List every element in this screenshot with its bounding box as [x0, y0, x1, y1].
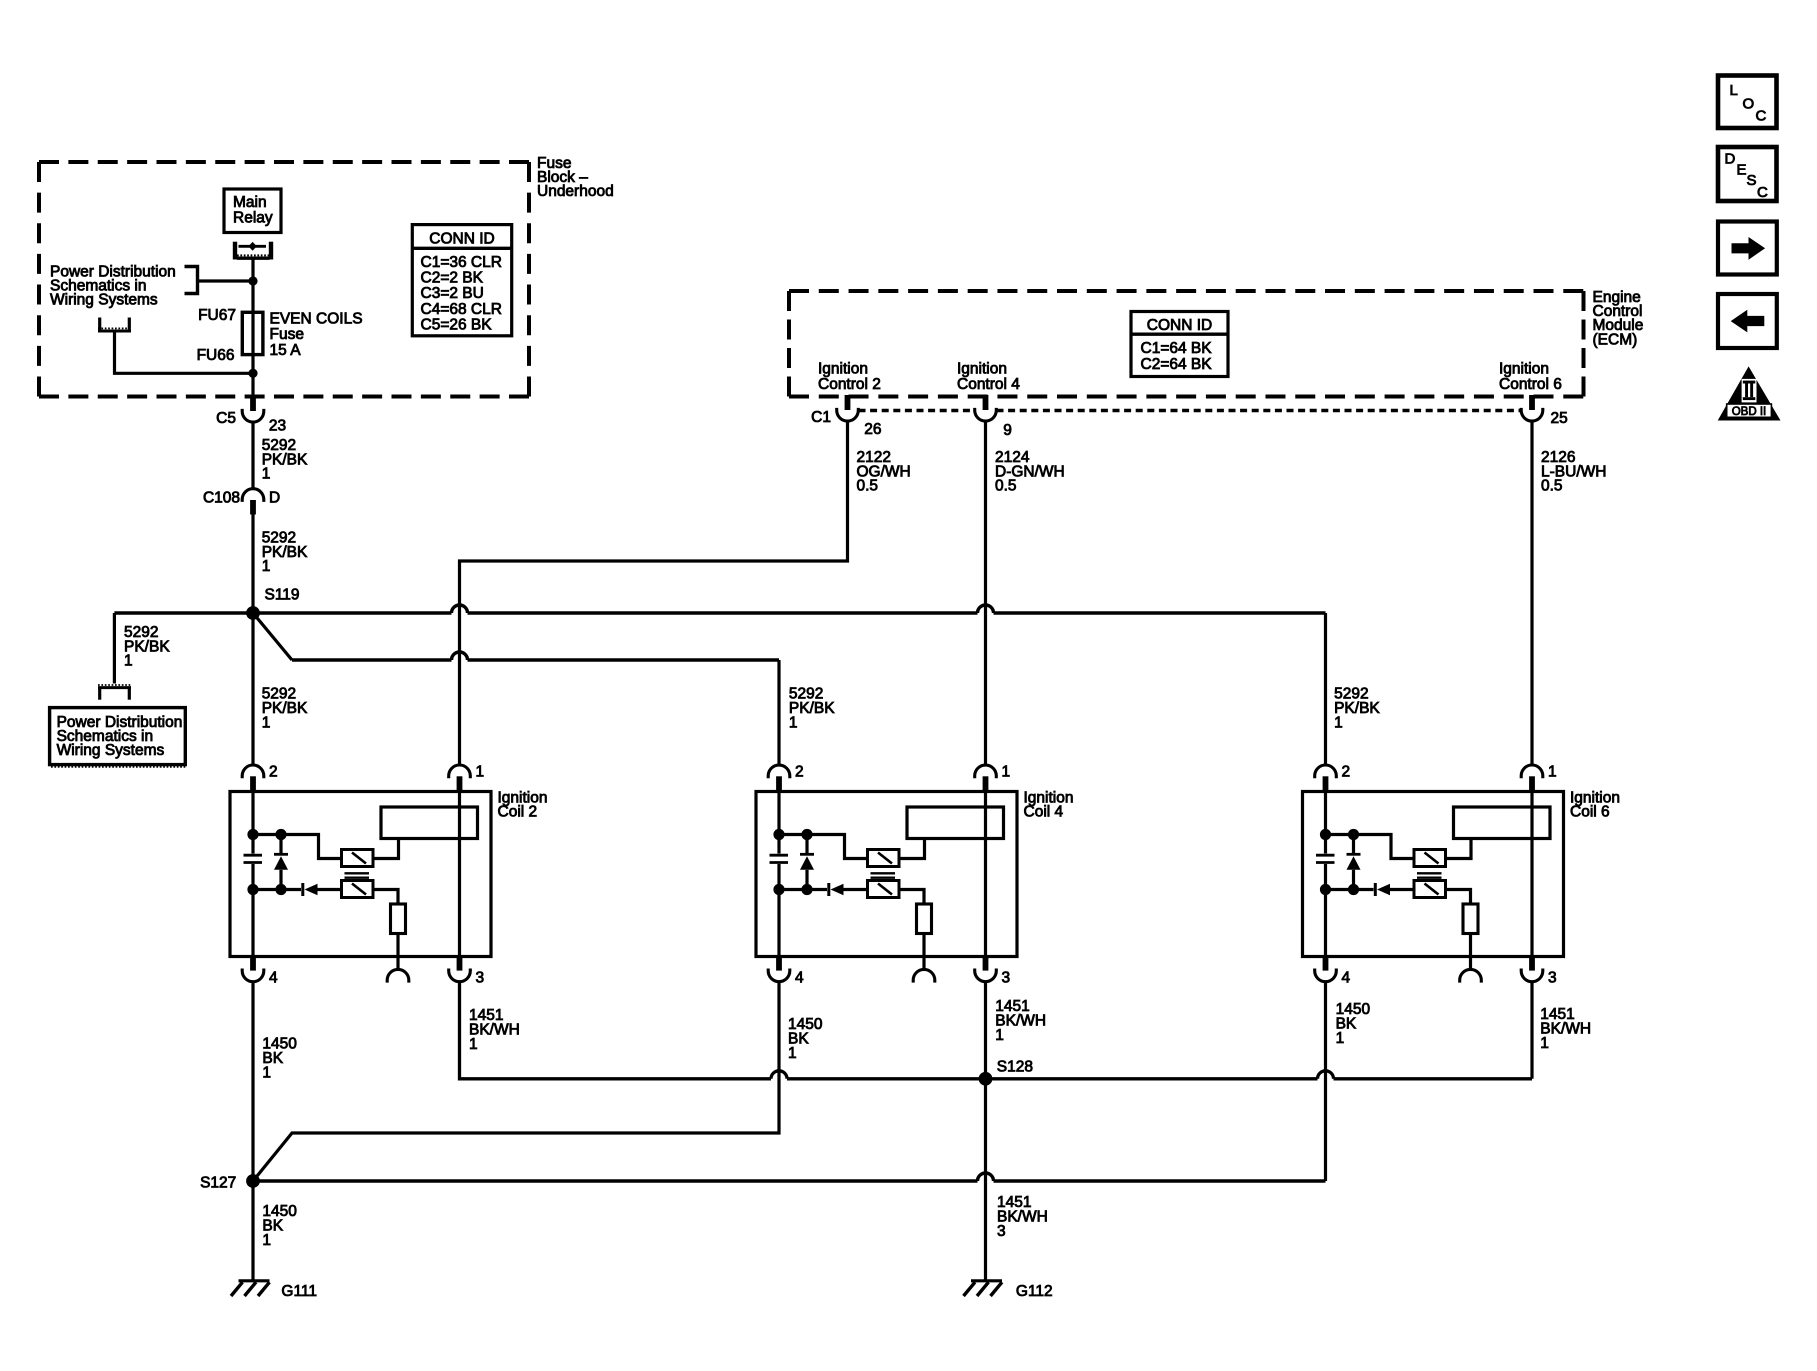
svg-text:1: 1	[476, 763, 485, 780]
svg-text:CONN ID: CONN ID	[429, 230, 494, 247]
svg-text:OBD II: OBD II	[1732, 406, 1767, 418]
wire hop over coil2 pin1 wire	[452, 605, 468, 613]
label 2122 OG/WH 0.5	[857, 449, 911, 495]
node zener bottom (coil 6)	[1348, 884, 1359, 895]
wire 2126 L-BU/WH: ECM pin 25 to coil 6 pin 1	[1530, 421, 1533, 765]
ECM dashed box	[789, 291, 1584, 397]
ignition coil 2 connector pin 4	[242, 955, 264, 982]
svg-text:Ignition: Ignition	[818, 360, 868, 377]
icon OBD II triangle	[1718, 366, 1781, 420]
off-page connector symbol (bottom, to power distribution)	[98, 685, 131, 700]
wire resistor to spark output (coil 4)	[922, 934, 925, 970]
svg-text:Control 4: Control 4	[957, 376, 1020, 393]
coil 6 internal left rail cap->pin4	[1324, 864, 1327, 957]
label 1451 BK/WH 3 (to G112)	[997, 1194, 1048, 1240]
bracket to Power Distribution text (top)	[185, 267, 198, 294]
svg-text:C1=36 CLR: C1=36 CLR	[421, 254, 502, 271]
wire node B to diode (coil 2)	[253, 888, 301, 891]
primary winding bottom (coil 2)	[342, 881, 374, 898]
wire primary bottom to resistor (coil 2)	[373, 890, 398, 905]
wire node A to primary winding (coil 4)	[779, 835, 869, 859]
label 5292 PK/BK 1 (coil 2 pin 2)	[262, 686, 308, 732]
node A (coil 4)	[773, 829, 784, 840]
svg-text:Ignition: Ignition	[957, 360, 1007, 377]
resistor (coil 4)	[917, 904, 932, 934]
label 5292 PK/BK 1 (coil 4 pin 2)	[789, 686, 835, 732]
ignition coil 2 box	[230, 792, 491, 957]
label 5292 PK/BK 1 (above S119)	[262, 530, 308, 576]
ignition coil 6 connector pin 1	[1521, 765, 1543, 793]
svg-text:C108: C108	[203, 489, 240, 506]
svg-text:3: 3	[997, 1223, 1006, 1240]
wire pin1 rail through secondary to pin 3 (coil 6)	[1530, 793, 1533, 957]
diode (coil 6)	[1375, 883, 1415, 896]
relay K Main Relay box	[224, 189, 281, 233]
svg-text:EVEN COILS: EVEN COILS	[270, 310, 363, 327]
svg-text:C3=2 BU: C3=2 BU	[421, 285, 484, 302]
svg-text:0.5: 0.5	[995, 478, 1017, 495]
svg-text:Coil 6: Coil 6	[1570, 804, 1610, 821]
node A (coil 2)	[247, 829, 258, 840]
icon arrow right	[1718, 222, 1777, 275]
svg-text:15 A: 15 A	[270, 342, 302, 359]
label 5292 PK/BK 1 (above C108)	[262, 437, 308, 483]
label 1451 BK/WH 1 (coil 4 pin 3)	[995, 998, 1046, 1044]
svg-text:Control 6: Control 6	[1499, 376, 1562, 393]
primary winding top (coil 2)	[342, 850, 374, 867]
connector C108 pin D	[242, 489, 264, 515]
connector C5 pin 23	[242, 395, 264, 422]
label Ignition Control 6	[1499, 360, 1562, 393]
wire 1451 BK/WH: coil 4 pin 3 to S128	[984, 982, 987, 1079]
svg-text:1: 1	[1548, 763, 1557, 780]
label Ignition Coil 4	[1024, 790, 1074, 821]
svg-text:1: 1	[1540, 1035, 1549, 1052]
node zener bottom (coil 4)	[801, 884, 812, 895]
zener diode (coil 2)	[274, 835, 288, 890]
connector C1 pin 25	[1521, 395, 1543, 421]
wire S119 down to coil 2 pin 2	[251, 613, 254, 765]
wire S119 bus down to coil 6 pin 2	[1324, 613, 1327, 765]
ignition coil 6 connector pin 3	[1521, 955, 1543, 982]
spark plug connector (coil 4)	[913, 969, 935, 982]
svg-text:Underhood: Underhood	[537, 183, 614, 200]
primary winding top (coil 4)	[868, 850, 900, 867]
ECM connector C1 dotted connector line	[859, 409, 1522, 413]
zener diode (coil 4)	[800, 835, 814, 890]
label 2126 L-BU/WH 0.5	[1541, 449, 1606, 495]
wire off-page symbol to fuse bottom junction	[115, 333, 254, 374]
label 1450 BK 1 (coil 6 pin 4)	[1336, 1001, 1371, 1047]
secondary winding box (coil 2)	[381, 807, 478, 839]
label 1451 BK/WH 1 (coil 6 pin 3)	[1540, 1006, 1591, 1052]
wire S119 horizontal bus	[114, 611, 1325, 614]
label Fuse Block Underhood	[537, 155, 614, 200]
icon arrow left	[1718, 294, 1777, 348]
primary winding bottom (coil 6)	[1414, 881, 1446, 898]
spark plug connector (coil 6)	[1460, 969, 1482, 982]
ignition coil 4 connector pin 1	[975, 765, 997, 793]
svg-text:FU66: FU66	[197, 347, 235, 364]
wire node B to diode (coil 4)	[779, 888, 827, 891]
svg-text:2: 2	[795, 763, 804, 780]
svg-text:O: O	[1743, 96, 1755, 113]
svg-text:0.5: 0.5	[1541, 478, 1563, 495]
node zener bottom (coil 2)	[275, 884, 286, 895]
label 2124 D-GN/WH 0.5	[995, 449, 1065, 495]
svg-text:4: 4	[795, 969, 804, 986]
wire hop over coil4 pin4 wire	[771, 1071, 787, 1079]
svg-text:3: 3	[1002, 969, 1011, 986]
node zener top (coil 4)	[801, 829, 812, 840]
label Ignition Control 2	[818, 360, 881, 393]
label Power Distribution Schematics in Wiring Systems (top)	[50, 264, 176, 309]
connector C1 pin 9	[975, 395, 997, 421]
capacitor (coil 6)	[1316, 855, 1335, 862]
label Ignition Coil 2	[498, 790, 548, 821]
wire resistor to spark output (coil 2)	[396, 934, 399, 970]
fuse FU67/FU66 EVEN COILS 15A	[242, 312, 263, 395]
capacitor (coil 2)	[244, 855, 263, 862]
node B (coil 4)	[773, 884, 784, 895]
primary winding bottom (coil 4)	[868, 881, 900, 898]
svg-text:1: 1	[1002, 763, 1011, 780]
diode (coil 4)	[829, 883, 869, 896]
svg-text:D: D	[269, 489, 280, 506]
wire down to coil 4 pin 2	[777, 660, 780, 765]
transformer core (coil 4)	[871, 873, 896, 877]
resistor (coil 2)	[391, 904, 406, 934]
svg-text:Wiring Systems: Wiring Systems	[57, 742, 165, 759]
Power Distribution reference box (bottom)	[50, 708, 187, 767]
ignition coil 4 connector pin 2	[768, 765, 790, 793]
svg-text:1: 1	[262, 1065, 271, 1082]
node A (coil 6)	[1320, 829, 1331, 840]
icon DESC	[1718, 147, 1777, 201]
wire node A to primary winding (coil 2)	[253, 835, 343, 859]
svg-text:1: 1	[1334, 715, 1343, 732]
secondary winding box (coil 4)	[907, 807, 1004, 839]
coil 6 internal left rail pin2->cap	[1324, 792, 1327, 854]
wire primary top to secondary (coil 6)	[1446, 839, 1472, 859]
ignition coil 2 connector pin 3	[449, 955, 471, 982]
wire S119 diagonal branch	[253, 613, 292, 660]
ignition coil 4 connector pin 4	[768, 955, 790, 982]
ignition coil 6 connector pin 4	[1315, 955, 1337, 982]
wire hop over S128-G112 wire	[978, 1173, 994, 1181]
svg-text:Main: Main	[233, 194, 267, 211]
off-page connector symbol (to power distribution)	[98, 318, 131, 332]
wire pin1 rail through secondary to pin 3 (coil 2)	[458, 793, 461, 957]
label Engine Control Module (ECM)	[1593, 289, 1644, 349]
coil 4 internal left rail pin2->cap	[777, 792, 780, 854]
svg-text:C: C	[1757, 184, 1768, 201]
svg-text:C: C	[1756, 108, 1767, 125]
label 5292 PK/BK 1 (left branch)	[124, 624, 170, 670]
svg-text:1: 1	[124, 653, 133, 670]
wire branch to coil 4 pin 2	[292, 658, 779, 661]
svg-text:4: 4	[1342, 969, 1351, 986]
transformer core (coil 2)	[345, 873, 370, 877]
svg-text:3: 3	[476, 969, 485, 986]
svg-text:1: 1	[788, 1045, 797, 1062]
ignition coil 6 box	[1303, 792, 1564, 957]
node zener top (coil 6)	[1348, 829, 1359, 840]
wire pin1 rail through secondary to pin 3 (coil 4)	[984, 793, 987, 957]
wire junction to text bracket	[198, 279, 254, 282]
label EVEN COILS Fuse 15 A	[270, 310, 363, 359]
diode (coil 2)	[303, 883, 343, 896]
wire C5 to C108, 5292 PK/BK	[251, 422, 254, 489]
wire node B to diode (coil 6)	[1326, 888, 1374, 891]
wire relay to fuse FU67	[251, 260, 254, 314]
svg-text:S119: S119	[265, 587, 300, 604]
ground G111	[231, 1281, 270, 1296]
zener diode (coil 6)	[1347, 835, 1361, 890]
node junction relay/power-dist	[248, 276, 257, 285]
wire left branch down to off-page symbol	[113, 613, 116, 684]
CONN ID table (ECM)	[1131, 312, 1228, 377]
node S128	[979, 1072, 993, 1086]
label 1450 BK 1 (coil 2 pin 4)	[262, 1036, 297, 1082]
svg-text:Fuse: Fuse	[270, 326, 304, 343]
wire node A to primary winding (coil 6)	[1326, 835, 1416, 859]
svg-text:1: 1	[262, 558, 271, 575]
wire 2124 D-GN/WH: ECM pin 9 to coil 4 pin 1	[984, 421, 987, 765]
svg-text:Wiring Systems: Wiring Systems	[50, 292, 158, 309]
svg-text:S127: S127	[200, 1175, 236, 1192]
svg-text:G111: G111	[281, 1283, 317, 1300]
svg-text:FU67: FU67	[198, 307, 236, 324]
svg-text:C5: C5	[216, 410, 236, 427]
svg-text:(ECM): (ECM)	[1593, 332, 1638, 349]
wire hop over coil2 pin1 wire (second bus)	[452, 652, 468, 660]
wire 1451 BK/WH: coil 2 pin 3 to S128	[460, 982, 986, 1079]
transformer core (coil 6)	[1417, 873, 1442, 877]
svg-text:0.5: 0.5	[857, 478, 879, 495]
wire coil 6 pin 4 down to S127 bus	[1324, 982, 1327, 1181]
svg-text:2: 2	[269, 763, 278, 780]
svg-text:Control 2: Control 2	[818, 376, 881, 393]
wire coil 6 pin 3 down	[1530, 982, 1533, 1079]
label Ignition Control 4	[957, 360, 1020, 393]
svg-text:1: 1	[995, 1027, 1004, 1044]
svg-text:2: 2	[1342, 763, 1351, 780]
wire S128 to coil 6 pin 3	[986, 1077, 1533, 1080]
connector C1 pin 26	[837, 395, 859, 421]
svg-text:C1=64 BK: C1=64 BK	[1141, 340, 1213, 357]
label 5292 PK/BK 1 (coil 6 pin 2)	[1334, 686, 1380, 732]
svg-text:1: 1	[262, 466, 271, 483]
label Ignition Coil 6	[1570, 790, 1620, 821]
wire hop over coil6 pin4 wire	[1318, 1071, 1334, 1079]
wire 1450 BK: coil 4 pin 4 to S127	[253, 982, 779, 1181]
secondary winding box (coil 6)	[1454, 807, 1551, 839]
label 1450 BK 1 (coil 4 pin 4)	[788, 1016, 823, 1062]
resistor (coil 6)	[1463, 904, 1478, 934]
svg-text:26: 26	[864, 421, 881, 438]
wire S127 bus to coil 6 pin 4	[253, 1179, 1326, 1182]
main relay cavity symbol	[235, 242, 271, 260]
coil 4 internal left rail cap->pin4	[777, 864, 780, 957]
wire primary bottom to resistor (coil 6)	[1446, 890, 1471, 905]
svg-text:E: E	[1737, 162, 1747, 179]
svg-text:9: 9	[1003, 422, 1012, 439]
svg-text:Relay: Relay	[233, 210, 273, 227]
ignition coil 6 connector pin 2	[1315, 765, 1337, 793]
CONN ID table (fuse block)	[412, 225, 511, 336]
icon LOC	[1718, 76, 1777, 129]
capacitor (coil 4)	[770, 855, 789, 862]
wire primary top to secondary (coil 4)	[899, 839, 925, 859]
wire resistor to spark output (coil 6)	[1469, 934, 1472, 970]
svg-text:23: 23	[269, 418, 286, 435]
svg-text:S128: S128	[997, 1059, 1033, 1076]
svg-text:Ignition: Ignition	[1499, 360, 1549, 377]
svg-text:C1: C1	[811, 409, 831, 426]
svg-text:S: S	[1747, 172, 1757, 189]
svg-text:Coil 4: Coil 4	[1024, 804, 1064, 821]
spark plug connector (coil 2)	[387, 969, 409, 982]
node S119	[246, 606, 260, 620]
svg-text:C2=64 BK: C2=64 BK	[1141, 356, 1213, 373]
node B (coil 6)	[1320, 884, 1331, 895]
svg-text:3: 3	[1548, 969, 1557, 986]
wire hop over coil4 pin1 wire	[978, 605, 994, 613]
svg-text:1: 1	[469, 1036, 478, 1053]
ignition coil 4 box	[756, 792, 1017, 957]
ignition coil 2 connector pin 2	[242, 765, 264, 793]
wire primary top to secondary (coil 2)	[373, 839, 399, 859]
wire C108 to S119, 5292 PK/BK	[251, 515, 254, 614]
wire primary bottom to resistor (coil 4)	[899, 890, 924, 905]
svg-text:C2=2 BK: C2=2 BK	[421, 270, 484, 287]
svg-text:C4=68 CLR: C4=68 CLR	[421, 301, 502, 318]
ground G112	[964, 1281, 1003, 1296]
svg-text:1: 1	[1336, 1030, 1345, 1047]
wire 2122 OG/WH: ECM pin 26 to coil 2 pin 1	[460, 421, 848, 765]
coil 2 internal left rail pin2->cap	[251, 792, 254, 854]
svg-text:1: 1	[262, 715, 271, 732]
svg-text:CONN ID: CONN ID	[1147, 317, 1212, 334]
label 1450 BK 1 (to G111)	[262, 1203, 297, 1249]
primary winding top (coil 6)	[1414, 850, 1446, 867]
fuse block underhood dashed box	[39, 162, 529, 397]
svg-text:Coil 2: Coil 2	[498, 804, 538, 821]
svg-text:G112: G112	[1016, 1283, 1053, 1300]
wire 1450 BK: coil 2 pin 4 to S127 to G111	[251, 982, 254, 1281]
wire 1451 BK/WH: S128 to G112	[984, 1079, 987, 1281]
node junction below fuse	[248, 369, 257, 378]
svg-text:4: 4	[269, 969, 278, 986]
svg-text:1: 1	[789, 715, 798, 732]
coil 2 internal left rail cap->pin4	[251, 864, 254, 957]
node S127	[246, 1174, 260, 1188]
svg-text:1: 1	[262, 1232, 271, 1249]
node zener top (coil 2)	[275, 829, 286, 840]
svg-text:C5=26 BK: C5=26 BK	[421, 317, 493, 334]
node B (coil 2)	[247, 884, 258, 895]
svg-text:L: L	[1730, 82, 1738, 99]
ignition coil 2 connector pin 1	[449, 765, 471, 793]
svg-text:D: D	[1725, 151, 1736, 168]
label 1451 BK/WH 1 (coil 2 pin 3)	[469, 1007, 520, 1053]
ignition coil 4 connector pin 3	[975, 955, 997, 982]
svg-text:25: 25	[1551, 410, 1568, 427]
